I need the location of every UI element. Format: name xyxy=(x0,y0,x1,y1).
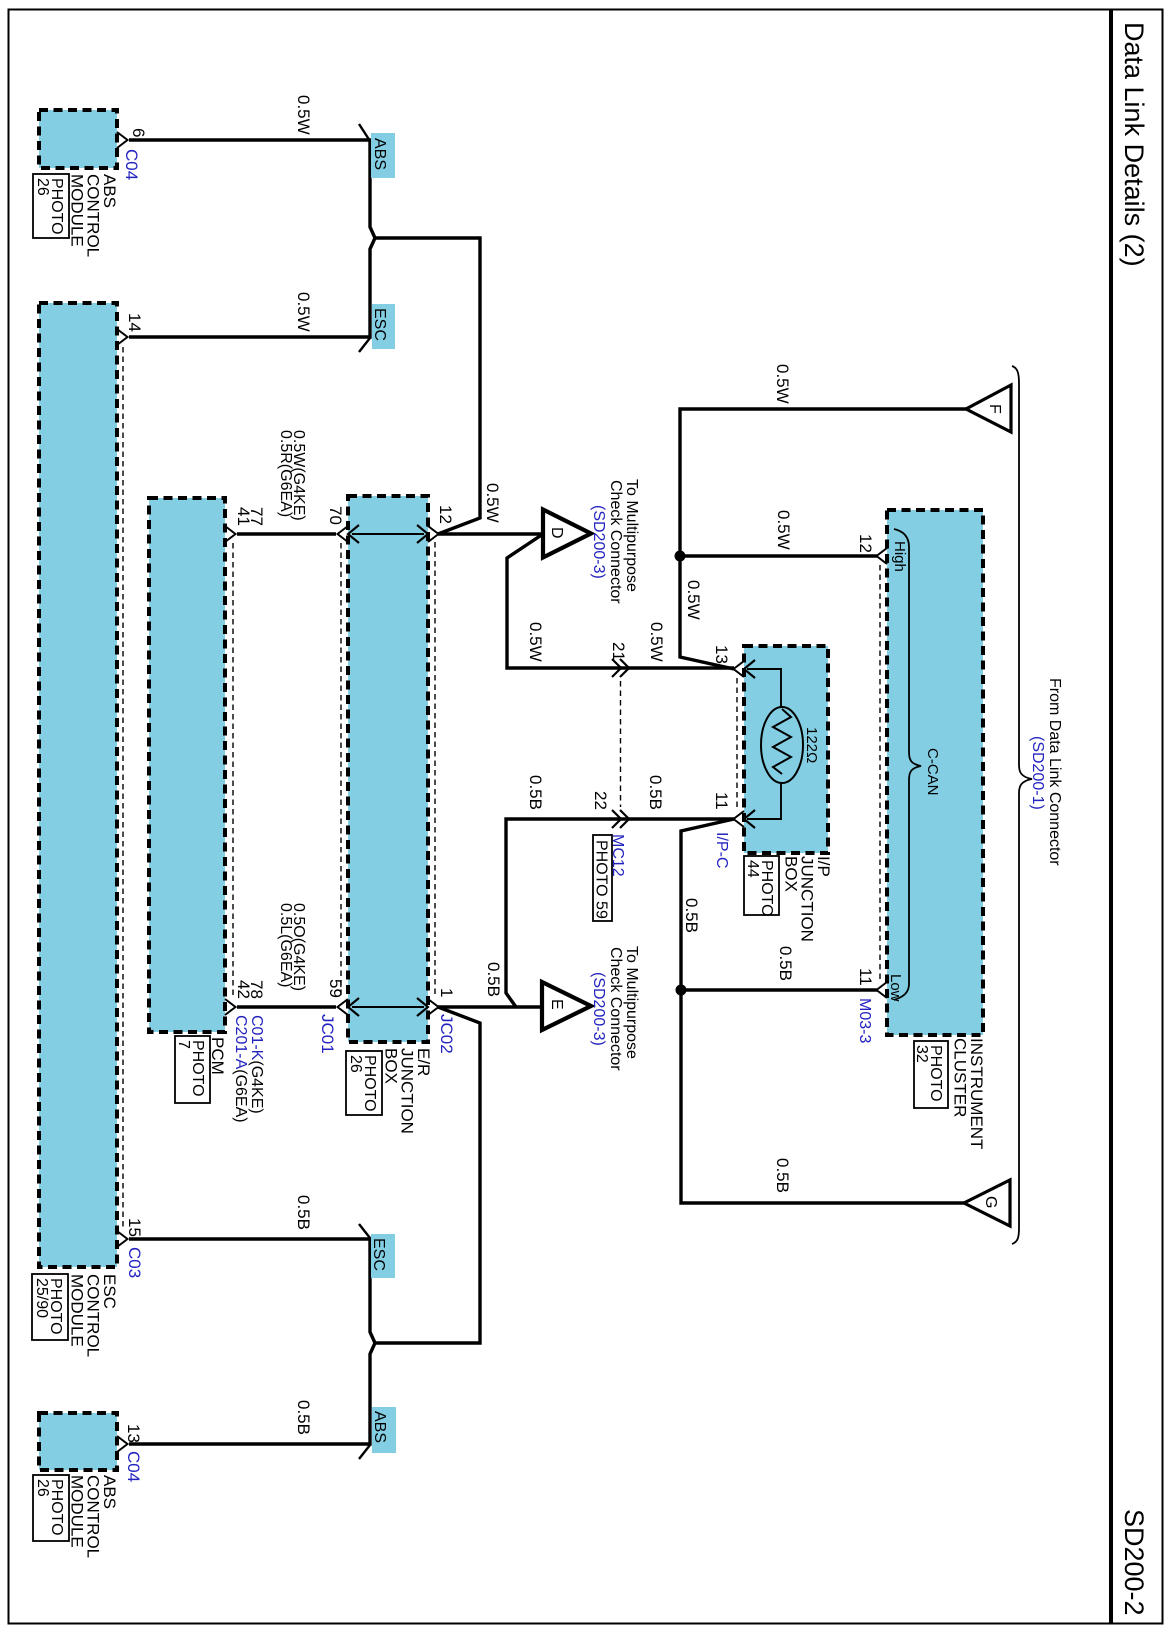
dashed link E/R JB right pins xyxy=(434,542,436,998)
svg-text:BOX: BOX xyxy=(381,1048,400,1084)
wire: PCM pin77/41 to E/R pin70 xyxy=(237,532,336,535)
pin 12 E/R JB xyxy=(428,526,439,542)
wire: I/P pin11 to connector 22 branch (0.5B) xyxy=(506,819,734,1007)
svg-text:G: G xyxy=(982,1196,999,1208)
svg-text:CLUSTER: CLUSTER xyxy=(951,1038,970,1117)
wire: I/P pin11 down to G triangle line (0.5B) xyxy=(681,819,964,1203)
triangle D xyxy=(543,510,591,558)
pin 14 ESC module xyxy=(117,329,128,345)
svg-text:122Ω: 122Ω xyxy=(803,727,820,763)
svg-text:1: 1 xyxy=(437,988,456,997)
svg-text:SD200-2: SD200-2 xyxy=(1119,1509,1149,1616)
svg-text:C03: C03 xyxy=(125,1247,144,1278)
svg-text:MC12: MC12 xyxy=(609,834,626,877)
svg-text:ESC: ESC xyxy=(371,308,388,341)
svg-text:12: 12 xyxy=(856,534,875,553)
svg-text:F: F xyxy=(986,404,1003,414)
svg-text:ABS: ABS xyxy=(371,138,388,170)
svg-text:11: 11 xyxy=(712,792,731,810)
wire: bottom junction to ABS pin13 (0.5B) xyxy=(129,1343,375,1444)
svg-text:C04: C04 xyxy=(122,149,141,180)
wire: branch D to connector 21 to I/P pin13 (0.5W) xyxy=(507,534,734,668)
svg-text:6: 6 xyxy=(129,128,148,137)
ABS control module (bottom) box C04 xyxy=(39,1413,117,1470)
svg-text:PCM: PCM xyxy=(208,1037,227,1075)
pin 11 cluster Low xyxy=(877,982,888,998)
I/P junction box xyxy=(744,646,828,853)
svg-text:Low: Low xyxy=(887,974,904,1002)
E/R JB internal bus arrow bottom xyxy=(352,1006,424,1008)
svg-text:41: 41 xyxy=(234,507,253,526)
svg-text:13: 13 xyxy=(124,1424,143,1443)
svg-text:0.5W: 0.5W xyxy=(773,364,792,404)
photo box I/P JB xyxy=(744,856,779,915)
dashed link PCM pins xyxy=(232,543,234,998)
svg-text:0.5W: 0.5W xyxy=(526,622,545,662)
pin 15 ESC module xyxy=(117,1231,128,1247)
dashed link I/P JB pins xyxy=(736,678,738,810)
svg-text:JC01: JC01 xyxy=(318,1014,337,1054)
photo box E/R JB xyxy=(346,1051,382,1115)
title separator line xyxy=(1109,10,1113,1624)
svg-text:26: 26 xyxy=(34,1479,51,1497)
svg-text:Check Connector: Check Connector xyxy=(607,480,624,604)
svg-text:(SD200-3): (SD200-3) xyxy=(590,972,607,1046)
wire: branch to cluster pin11 Low xyxy=(681,988,877,991)
svg-text:0.5W: 0.5W xyxy=(483,483,502,523)
instrument cluster box xyxy=(887,510,983,1035)
svg-text:26: 26 xyxy=(347,1055,364,1073)
svg-text:13: 13 xyxy=(712,645,731,664)
wire: junction to E/R pin12 xyxy=(375,238,480,534)
photo box ABS bottom xyxy=(33,1475,69,1541)
svg-text:ESC: ESC xyxy=(370,1238,387,1271)
svg-text:D: D xyxy=(548,527,565,539)
photo box ESC xyxy=(32,1274,68,1340)
svg-text:ABS: ABS xyxy=(371,1411,388,1443)
svg-text:21: 21 xyxy=(609,642,628,661)
svg-text:42: 42 xyxy=(234,980,253,999)
svg-text:70: 70 xyxy=(326,506,345,525)
inline connector tick ESC (top) xyxy=(359,338,370,352)
svg-text:0.5W: 0.5W xyxy=(647,622,666,662)
svg-text:0.5W: 0.5W xyxy=(684,580,703,620)
svg-text:12: 12 xyxy=(436,505,455,524)
inline connector tick ABS (bottom) xyxy=(359,1445,370,1459)
photo box ABS top xyxy=(33,174,69,238)
svg-text:(SD200-1): (SD200-1) xyxy=(1029,736,1046,810)
PCM box xyxy=(149,498,225,1032)
pin 1 E/R JB xyxy=(428,999,439,1015)
svg-text:7: 7 xyxy=(175,1040,192,1049)
svg-text:PHOTO 59: PHOTO 59 xyxy=(593,840,610,919)
E/R junction box xyxy=(348,496,428,1042)
svg-text:11: 11 xyxy=(856,968,875,986)
svg-text:0.5W: 0.5W xyxy=(774,510,793,550)
dashed link ESC module pins xyxy=(122,347,124,1230)
svg-text:0.5B: 0.5B xyxy=(682,898,701,933)
svg-text:I/P-C: I/P-C xyxy=(713,832,730,868)
resistor 122ohm ellipse xyxy=(761,707,803,783)
pin 13 I/P JB xyxy=(734,661,745,677)
svg-text:C-CAN: C-CAN xyxy=(924,748,941,796)
wire: ESC pin14 to junction (0.5W) xyxy=(129,238,375,337)
resistor 122ohm leads xyxy=(747,669,781,707)
wire: E/R pin1 down to bottom junction xyxy=(375,1007,480,1343)
pin 77/41 PCM xyxy=(225,526,236,542)
svg-text:High: High xyxy=(891,541,908,572)
svg-text:Check Connector: Check Connector xyxy=(607,947,624,1071)
wire: PCM pin78/42 to E/R pin59 xyxy=(237,1005,336,1008)
pin 13 ABS module bottom xyxy=(117,1436,128,1452)
pin 6 ABS module xyxy=(117,132,128,148)
svg-text:BOX: BOX xyxy=(781,856,800,892)
big brace From Data Link Connector xyxy=(1012,366,1032,1244)
svg-text:0.5B: 0.5B xyxy=(526,775,545,810)
svg-text:MODULE: MODULE xyxy=(67,1274,86,1347)
svg-text:59: 59 xyxy=(326,979,345,998)
triangle G xyxy=(964,1180,1010,1226)
svg-text:E: E xyxy=(548,999,565,1010)
pin 11 I/P JB xyxy=(734,811,745,827)
svg-text:26: 26 xyxy=(34,178,51,196)
svg-text:0.5R(G6EA): 0.5R(G6EA) xyxy=(277,430,294,517)
pin 12 cluster High xyxy=(877,548,888,564)
svg-text:C201-A(G6EA): C201-A(G6EA) xyxy=(232,1015,249,1123)
resistor zigzag xyxy=(773,709,791,774)
svg-text:0.5B: 0.5B xyxy=(484,962,503,997)
dashed link 21-22 xyxy=(620,681,622,807)
photo box cluster xyxy=(914,1041,948,1108)
wire: bottom junction to ESC pin15 (0.5B) xyxy=(129,1239,375,1343)
pin 78/42 PCM xyxy=(225,999,236,1015)
svg-text:0.5B: 0.5B xyxy=(294,1400,313,1435)
svg-text:To Multipurpose: To Multipurpose xyxy=(623,479,640,592)
dashed link cluster pins xyxy=(879,565,881,981)
svg-text:14: 14 xyxy=(125,313,144,332)
photo box PCM xyxy=(175,1036,210,1103)
dashed link E/R JB left pins xyxy=(340,543,342,998)
pin 70 E/R JB xyxy=(338,526,349,542)
svg-text:15: 15 xyxy=(125,1218,144,1237)
svg-text:C04: C04 xyxy=(124,1451,143,1482)
inline connector tick ABS (top) xyxy=(359,124,370,141)
svg-text:0.5B: 0.5B xyxy=(776,946,795,981)
wire: E/R pin1 to triangle E xyxy=(438,1005,542,1008)
triangle E xyxy=(542,982,591,1030)
ABS control module (top) box C04 xyxy=(39,110,117,168)
svg-text:0.5B: 0.5B xyxy=(773,1158,792,1193)
junction dot High xyxy=(675,551,686,562)
inline connector tick ESC (bottom) xyxy=(359,1224,370,1238)
svg-text:M03-3: M03-3 xyxy=(856,998,873,1043)
svg-text:25/90: 25/90 xyxy=(33,1278,50,1318)
svg-text:(SD200-3): (SD200-3) xyxy=(590,505,607,579)
svg-text:JC02: JC02 xyxy=(437,1014,456,1054)
svg-text:0.5W: 0.5W xyxy=(294,292,313,332)
pin 59 E/R JB xyxy=(338,999,349,1015)
svg-text:C01-K(G4KE): C01-K(G4KE) xyxy=(248,1015,265,1114)
wire: F triangle line down to I/P pin13 (0.5W) xyxy=(680,409,966,669)
ESC control module box C03 xyxy=(39,303,117,1267)
C-CAN brace inside cluster xyxy=(894,529,921,1000)
svg-text:MODULE: MODULE xyxy=(67,174,86,247)
svg-text:MODULE: MODULE xyxy=(67,1475,86,1548)
svg-text:To Multipurpose: To Multipurpose xyxy=(623,946,640,1059)
svg-text:0.5B: 0.5B xyxy=(294,1195,313,1230)
inline connector 22 xyxy=(612,810,629,828)
svg-text:22: 22 xyxy=(591,791,610,810)
svg-text:44: 44 xyxy=(744,860,761,878)
photo box MC12 xyxy=(593,835,612,921)
E/R JB internal bus arrow top xyxy=(352,533,424,535)
svg-text:Data Link Details (2): Data Link Details (2) xyxy=(1119,22,1149,267)
inline connector 21 xyxy=(612,659,629,677)
svg-text:0.5W: 0.5W xyxy=(294,95,313,135)
svg-text:From Data Link Connector: From Data Link Connector xyxy=(1046,678,1063,866)
junction dot Low xyxy=(676,985,687,996)
wire: E/R pin12 to triangle D xyxy=(438,532,543,535)
triangle F xyxy=(966,385,1011,432)
svg-text:32: 32 xyxy=(913,1045,930,1063)
wire: ABS pin6 to junction (0.5W) xyxy=(129,140,375,238)
wire: branch to cluster pin12 High xyxy=(680,554,877,557)
svg-text:0.5L(G6EA): 0.5L(G6EA) xyxy=(277,903,294,987)
svg-text:0.5B: 0.5B xyxy=(646,775,665,810)
